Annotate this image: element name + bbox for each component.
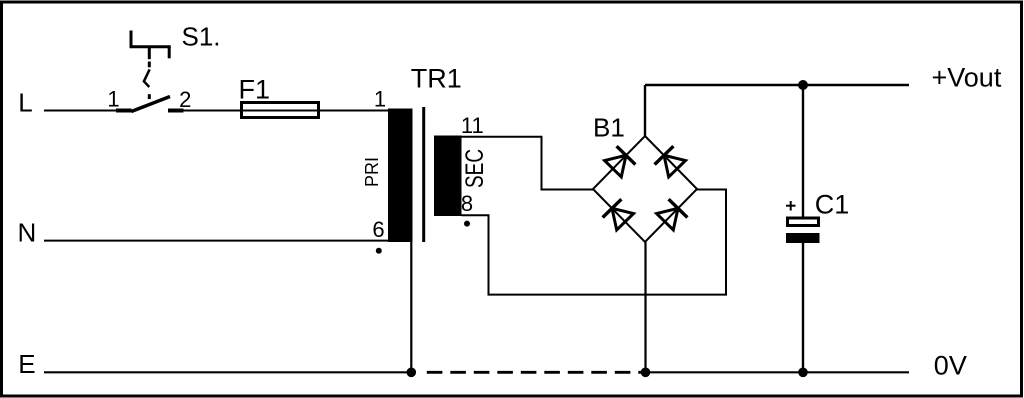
switch S1 terminal 1 stub	[116, 109, 132, 113]
wire +Vout rail	[645, 84, 909, 86]
diode D2 (right to top)	[655, 146, 686, 177]
diode D3 (bottom to left)	[603, 199, 634, 230]
pin 8 polarity dot	[464, 221, 470, 227]
svg-text:1: 1	[107, 87, 119, 112]
switch S1 terminal 2 stub	[168, 109, 184, 113]
svg-text:C1: C1	[815, 190, 850, 220]
wire TR1 pin 11 to bridge left vertex	[462, 137, 594, 190]
wire TR1 pin 8 to bridge right vertex	[462, 190, 727, 295]
wire C1 top	[802, 85, 804, 217]
diode D4 (bottom to right)	[657, 199, 688, 230]
transformer TR1 primary winding	[388, 109, 413, 243]
diode D1 (left to top)	[605, 146, 636, 177]
svg-text:B1: B1	[593, 113, 625, 143]
bridge B1 diamond	[593, 136, 697, 242]
junction dot E/bridge	[641, 368, 651, 378]
switch S1 linkage dash	[148, 94, 151, 99]
junction dot E/TR1	[407, 368, 417, 378]
fuse F1 body	[242, 103, 319, 118]
wire E dashed link	[427, 371, 646, 374]
svg-text:S1.: S1.	[182, 22, 221, 52]
transformer TR1 secondary winding	[434, 136, 462, 217]
svg-text:6: 6	[372, 217, 384, 242]
junction dot rail/C1	[798, 80, 808, 90]
svg-text:L: L	[18, 88, 32, 118]
switch S1 blade	[131, 97, 170, 112]
svg-text:SEC: SEC	[460, 149, 488, 188]
svg-text:F1: F1	[239, 74, 271, 104]
junction dot 0V/C1	[798, 368, 808, 378]
capacitor C1 bottom plate	[786, 233, 820, 243]
transformer TR1 core	[422, 107, 425, 242]
svg-text:0V: 0V	[934, 350, 967, 380]
svg-text:+Vout: +Vout	[932, 62, 1002, 92]
wire TR1 screen to E	[410, 242, 412, 372]
svg-text:11: 11	[461, 113, 484, 138]
svg-text:2: 2	[179, 87, 191, 112]
switch S1 actuator	[130, 31, 171, 60]
wire 0V rail	[646, 371, 910, 373]
svg-text:TR1: TR1	[411, 64, 462, 94]
wire N to TR1 pin 6	[44, 240, 388, 242]
svg-text:N: N	[18, 218, 37, 248]
wire switch to fuse to TR1 pin 1	[184, 110, 389, 112]
svg-text:E: E	[18, 349, 35, 379]
svg-text:PRI: PRI	[362, 157, 382, 187]
wire bridge bottom vertex to 0V	[644, 242, 646, 372]
svg-text:1: 1	[374, 87, 386, 112]
svg-text:8: 8	[461, 191, 473, 216]
capacitor C1 plus sign	[786, 201, 796, 211]
wire bridge top vertex to +Vout rail	[644, 85, 646, 136]
switch S1 linkage dash	[148, 62, 151, 68]
capacitor C1 top plate	[788, 218, 819, 226]
switch S1 latch zigzag	[144, 69, 150, 87]
wire E solid left	[44, 371, 411, 373]
pin 6 polarity dot	[376, 248, 382, 254]
wire L input	[44, 110, 117, 112]
wire C1 bottom	[802, 243, 804, 372]
